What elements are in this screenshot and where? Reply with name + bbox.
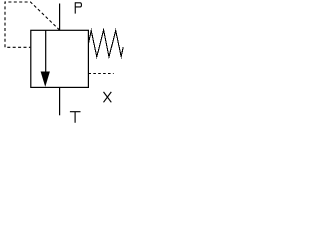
pilot line (dashed, internal from P): [5, 2, 60, 47]
label P: [75, 2, 81, 13]
valve body square: [31, 30, 89, 87]
label X: [104, 92, 112, 102]
port T line: [59, 87, 61, 115]
flow arrow head: [41, 72, 50, 87]
label T: [70, 111, 81, 123]
port P line: [59, 4, 61, 31]
flow arrow shaft: [45, 30, 47, 71]
pilot port X line (dashed): [88, 73, 113, 75]
spring: [89, 30, 124, 57]
